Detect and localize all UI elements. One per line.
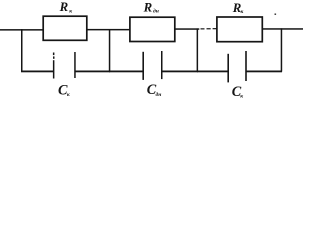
wire: cap2 left lead — [109, 71, 143, 73]
svg-text:R: R — [59, 0, 69, 14]
wire: cap2 right lead — [161, 71, 198, 73]
capacitor C2 right plate — [161, 51, 163, 79]
capacitor C3 right plate — [245, 51, 247, 81]
resistor R1 body — [43, 16, 87, 40]
wire: left bus segment into R1 — [0, 29, 44, 31]
wire: bus segment between R2 and R3 (solid part) — [174, 28, 199, 30]
svg-text:к: к — [69, 8, 72, 14]
resistor R3 body — [217, 17, 262, 42]
wire: cap1 right lead — [75, 71, 111, 73]
scan speck near top right — [275, 14, 277, 15]
node: left junction drop — [21, 29, 23, 72]
svg-text:к: к — [240, 93, 243, 99]
svg-text:R: R — [143, 1, 153, 15]
wire: cap1 left lead — [21, 71, 54, 73]
wire: cap3 left lead — [197, 71, 228, 73]
capacitor C1 left plate (broken scan stroke) — [53, 53, 55, 79]
svg-text:к: к — [241, 9, 244, 15]
capacitor C2 left plate — [142, 52, 144, 80]
node: riser between R1 and R2 — [109, 29, 111, 72]
node: right junction drop — [281, 28, 283, 71]
capacitor C1 right plate — [74, 52, 76, 78]
wire: bus segment between R1 and R2 — [87, 29, 131, 31]
wire: faint dashed bus part entering R3 — [201, 28, 218, 30]
svg-text:дн: дн — [156, 91, 162, 98]
capacitor C3 left plate — [227, 54, 229, 83]
svg-text:к: к — [67, 92, 70, 98]
wire: cap3 right lead — [246, 71, 282, 73]
resistor R2 body — [130, 17, 175, 41]
wire: right bus segment from R3 to edge — [262, 28, 303, 30]
node: riser between R2 and R3 — [197, 28, 199, 71]
svg-text:дн: дн — [153, 8, 159, 15]
